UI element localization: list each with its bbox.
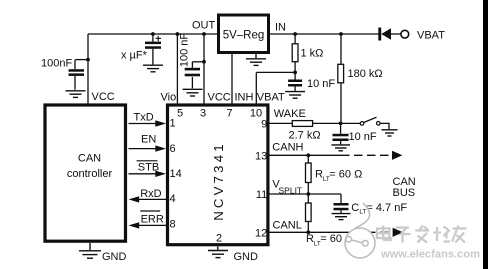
ground (100nF left) bbox=[66, 91, 86, 98]
capacitor CLT bbox=[340, 194, 342, 203]
svg-text:1 kΩ: 1 kΩ bbox=[301, 48, 324, 60]
svg-text:1: 1 bbox=[170, 117, 176, 129]
svg-text:10 nF: 10 nF bbox=[307, 78, 335, 90]
svg-text:WAKE: WAKE bbox=[274, 108, 306, 120]
svg-text:4: 4 bbox=[170, 193, 176, 205]
svg-text:BUS: BUS bbox=[393, 187, 416, 199]
svg-text:CANL: CANL bbox=[273, 219, 302, 231]
resistor RLT (bottom) bbox=[306, 194, 312, 232]
char zi bbox=[396, 226, 410, 228]
CAN controller U2 bbox=[45, 105, 126, 241]
svg-text:CAN: CAN bbox=[78, 153, 101, 165]
svg-text:RxD: RxD bbox=[140, 188, 161, 200]
char fa bbox=[415, 229, 429, 231]
svg-text:2.7 kΩ: 2.7 kΩ bbox=[289, 130, 321, 142]
svg-text:12: 12 bbox=[255, 227, 267, 239]
svg-text:VCC: VCC bbox=[92, 91, 115, 103]
signal ERR (overline) bbox=[138, 224, 166, 226]
svg-text:INH: INH bbox=[235, 92, 254, 104]
ground (controller) bbox=[79, 243, 101, 258]
wire diode to VBAT terminal bbox=[391, 33, 401, 35]
ground (transceiver) bbox=[208, 247, 228, 258]
wire VCC drop to CAN controller bbox=[87, 34, 89, 104]
junction node VSPLIT bbox=[306, 192, 310, 196]
ground (regulator) bbox=[246, 54, 266, 65]
wire INH drop from regulator bbox=[231, 54, 233, 104]
svg-text:14: 14 bbox=[170, 168, 182, 180]
capacitor 10 nF (VBAT) bbox=[288, 80, 302, 87]
right black bar bbox=[483, 0, 488, 269]
junction at 100nF stub bbox=[86, 58, 90, 62]
ground (switch) bbox=[382, 130, 398, 136]
wire Vio drop bbox=[176, 34, 178, 104]
dashed CANL bus bbox=[341, 231, 393, 233]
svg-text:OUT: OUT bbox=[192, 20, 216, 32]
signal EN bbox=[129, 148, 157, 150]
plus sign bbox=[156, 36, 162, 41]
svg-text:www.elecfans.com: www.elecfans.com bbox=[380, 249, 480, 261]
wire WAKE to switch bbox=[313, 122, 361, 124]
terminal VBAT bbox=[401, 30, 409, 38]
svg-text:IN: IN bbox=[275, 22, 286, 34]
junction on CANH wire bbox=[306, 153, 310, 157]
wire WAKE bbox=[270, 122, 293, 124]
ground (10 nF WAKE) bbox=[332, 145, 351, 151]
svg-text:NCV7341: NCV7341 bbox=[211, 141, 226, 221]
ground (10 nF VBAT) bbox=[285, 92, 305, 99]
char shao bbox=[436, 227, 438, 241]
junction node VBAT net bbox=[293, 71, 297, 75]
wire OUT/VCC drop bbox=[203, 34, 205, 104]
wire CANH bbox=[270, 154, 342, 156]
svg-text:13: 13 bbox=[255, 150, 267, 162]
svg-text:VBAT: VBAT bbox=[417, 30, 445, 42]
wire VSPLIT bbox=[270, 193, 342, 195]
resistor R 2.7k bbox=[292, 121, 312, 127]
5V regulator U1 bbox=[219, 15, 269, 53]
junction at 100nF stub on VCC drop bbox=[202, 60, 206, 64]
svg-text:STB: STB bbox=[138, 161, 159, 173]
ground (CLT) bbox=[332, 214, 351, 220]
transceiver NCV7341 U3 bbox=[168, 105, 268, 245]
svg-text:5V–Reg: 5V–Reg bbox=[223, 30, 265, 42]
svg-text:100nF: 100nF bbox=[41, 58, 72, 70]
char dian bbox=[377, 229, 390, 239]
junction node OUT bbox=[202, 32, 206, 36]
capacitor x uF (polarized) bbox=[152, 34, 154, 65]
svg-text:controller: controller bbox=[67, 168, 113, 180]
svg-text:CANH: CANH bbox=[272, 141, 303, 153]
svg-text:7: 7 bbox=[226, 108, 232, 120]
svg-text:x µF*: x µF* bbox=[121, 50, 148, 62]
svg-text:Vio: Vio bbox=[161, 92, 177, 104]
watermark logo (elecfans) bbox=[345, 203, 375, 258]
svg-text:9: 9 bbox=[261, 119, 267, 131]
char you bbox=[453, 227, 467, 229]
wire CANL bbox=[270, 231, 342, 233]
svg-text:GND: GND bbox=[234, 251, 259, 263]
svg-text:TxD: TxD bbox=[134, 111, 154, 123]
signal TxD bbox=[129, 123, 157, 125]
capacitor C 100nF (left) bbox=[75, 60, 88, 90]
svg-text:100 nF: 100 nF bbox=[179, 33, 191, 68]
junction at 1k tap on IN wire bbox=[293, 32, 297, 36]
signal RxD bbox=[138, 198, 166, 200]
diode D1 bbox=[378, 28, 391, 41]
svg-text:180 kΩ: 180 kΩ bbox=[348, 68, 383, 80]
svg-text:GND: GND bbox=[102, 251, 127, 263]
junction at Vio tap on VCC rail bbox=[176, 32, 180, 36]
resistor RLT (top) bbox=[306, 155, 312, 194]
signal STB (overline) bbox=[129, 173, 157, 175]
svg-text:VCC: VCC bbox=[208, 92, 231, 104]
wire VBAT node horizontal bbox=[256, 71, 295, 73]
svg-text:6: 6 bbox=[170, 143, 176, 155]
svg-text:5: 5 bbox=[177, 108, 183, 120]
resistor R 180k bbox=[338, 34, 344, 123]
ground (x uF) bbox=[143, 65, 163, 72]
junction on CANL wire bbox=[306, 230, 310, 234]
switch S1 bbox=[360, 122, 364, 126]
wire top rail left bbox=[88, 33, 217, 35]
svg-text:2: 2 bbox=[216, 233, 222, 245]
svg-text:EN: EN bbox=[141, 134, 156, 146]
svg-text:3: 3 bbox=[200, 108, 206, 120]
svg-text:ERR: ERR bbox=[141, 213, 164, 225]
wire top rail right bbox=[270, 33, 379, 35]
watermark chinese text (stroke art) bbox=[377, 226, 467, 243]
capacitor 100 nF (right, rotated label) bbox=[192, 62, 204, 89]
wire VBAT drop bbox=[255, 73, 257, 104]
svg-text:10: 10 bbox=[250, 108, 262, 120]
svg-text:10 nF: 10 nF bbox=[349, 131, 377, 143]
ground (100 nF right) bbox=[183, 89, 203, 96]
resistor R 1k bbox=[292, 34, 298, 80]
svg-text:11: 11 bbox=[256, 189, 267, 201]
svg-text:8: 8 bbox=[170, 219, 176, 231]
junction at xuF tap on VCC rail bbox=[151, 32, 155, 36]
capacitor 10 nF (WAKE) bbox=[340, 123, 342, 133]
svg-text:VBAT: VBAT bbox=[257, 92, 285, 104]
dashed CANH bus bbox=[341, 154, 392, 156]
junction at 180k tap on IN wire bbox=[339, 32, 343, 36]
junction on WAKE wire bbox=[339, 122, 343, 126]
